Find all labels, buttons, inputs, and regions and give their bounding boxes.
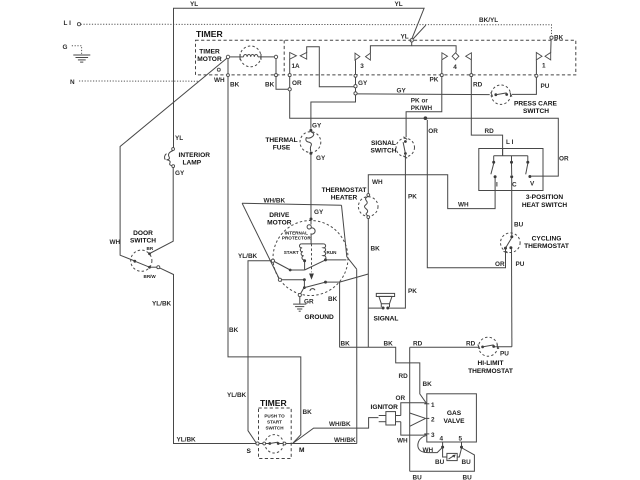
svg-text:3: 3 xyxy=(360,63,364,70)
svg-text:BK: BK xyxy=(303,409,313,416)
svg-text:BU: BU xyxy=(435,459,445,466)
wire RD diagonals to gas valve pin 2 xyxy=(410,413,425,426)
svg-text:4: 4 xyxy=(440,436,444,443)
svg-text:OR: OR xyxy=(292,80,302,87)
svg-text:DRIVE: DRIVE xyxy=(269,212,290,219)
svg-text:OR: OR xyxy=(396,395,406,402)
wire GY long line to press care switch xyxy=(357,93,490,96)
wire WH/BK motor to M terminal xyxy=(356,269,358,443)
timer cam contact 1 xyxy=(536,53,550,70)
svg-text:BK: BK xyxy=(328,296,338,303)
wire 1A right leg over to contact 3 xyxy=(307,47,354,87)
svg-text:V: V xyxy=(530,181,535,188)
svg-text:WH/BK: WH/BK xyxy=(329,421,351,428)
svg-text:1A: 1A xyxy=(292,63,301,70)
push to start switch S3 terminals xyxy=(247,442,306,455)
node BK junction circle xyxy=(550,36,553,39)
wire motor enclosure top edge xyxy=(242,203,341,205)
wire WH ignitor to gas valve pin 3 xyxy=(401,422,427,435)
svg-text:RD: RD xyxy=(466,341,476,348)
svg-text:YL/BK: YL/BK xyxy=(227,392,247,399)
svg-text:RUN: RUN xyxy=(327,250,338,255)
svg-text:YL: YL xyxy=(401,33,409,40)
svg-text:WH: WH xyxy=(110,239,121,246)
svg-text:YL: YL xyxy=(395,1,403,8)
wire motor to ground xyxy=(298,289,314,306)
svg-text:YL/BK: YL/BK xyxy=(238,253,258,260)
ground G xyxy=(63,44,91,62)
wire BU heat switch C to cycling thermostat xyxy=(511,178,513,235)
svg-text:TIMER: TIMER xyxy=(199,49,220,56)
svg-text:BK: BK xyxy=(423,381,433,388)
ground symbol xyxy=(293,304,334,321)
svg-text:BR: BR xyxy=(147,246,154,251)
wire BK drop to timer contact 1 xyxy=(550,39,552,52)
timer push-to-start block xyxy=(259,398,292,459)
svg-text:VALVE: VALVE xyxy=(443,418,465,425)
wire motor enclosure left edge xyxy=(242,203,279,278)
svg-text:WH: WH xyxy=(458,202,469,209)
wire BK timer motor right leg to OR junction xyxy=(276,59,288,90)
wire OR ignitor to gas valve pin 1 xyxy=(401,403,427,416)
wire L1 dotted line to BK/YL xyxy=(81,24,552,36)
svg-text:RD: RD xyxy=(413,341,423,348)
svg-text:PK or: PK or xyxy=(411,98,429,105)
svg-text:TIMER: TIMER xyxy=(260,398,288,408)
svg-text:M: M xyxy=(299,447,305,454)
svg-text:WH: WH xyxy=(397,438,408,445)
svg-text:RD: RD xyxy=(485,128,495,135)
svg-text:SIGNAL: SIGNAL xyxy=(371,140,396,147)
svg-text:BU: BU xyxy=(413,475,423,480)
svg-text:PU: PU xyxy=(500,351,509,358)
wire BK heater down to bottom rail xyxy=(367,219,369,348)
svg-text:PRESS CARE: PRESS CARE xyxy=(514,101,557,108)
hi-limit thermostat S7 xyxy=(468,337,513,375)
door switch S1 xyxy=(130,230,160,279)
svg-text:BK: BK xyxy=(371,246,381,253)
svg-text:IGNITOR: IGNITOR xyxy=(371,404,399,411)
svg-text:RD: RD xyxy=(399,373,409,380)
wire BU bottom loop xyxy=(410,448,475,471)
svg-text:WH: WH xyxy=(372,179,383,186)
thermal fuse F1 xyxy=(265,129,326,162)
node L1 terminal xyxy=(64,20,81,27)
svg-text:RD: RD xyxy=(473,82,483,89)
wire motor enclosure right edge xyxy=(342,205,357,269)
svg-text:START: START xyxy=(284,250,299,255)
svg-text:PUSH TO: PUSH TO xyxy=(264,414,285,419)
motor start switch blade xyxy=(274,258,346,271)
svg-text:GY: GY xyxy=(397,88,407,95)
svg-text:SWITCH: SWITCH xyxy=(370,148,396,155)
svg-text:PK: PK xyxy=(408,194,417,201)
wire speaker left lead to BK line xyxy=(368,307,381,309)
speaker SIGNAL LS1 xyxy=(374,293,399,322)
svg-text:PK: PK xyxy=(408,288,417,295)
svg-text:BU: BU xyxy=(463,475,473,480)
svg-text:THERMOSTAT: THERMOSTAT xyxy=(468,368,513,375)
motor internal protector xyxy=(282,218,315,244)
svg-text:BU: BU xyxy=(462,459,472,466)
svg-text:SWITCH: SWITCH xyxy=(265,426,284,431)
svg-text:BU: BU xyxy=(514,222,524,229)
wire stub junction to L1 line xyxy=(413,25,426,39)
svg-text:PU: PU xyxy=(516,261,525,268)
svg-text:C: C xyxy=(512,182,517,189)
svg-text:3: 3 xyxy=(431,432,435,439)
node M junction xyxy=(293,443,357,445)
svg-text:SWITCH: SWITCH xyxy=(130,238,156,245)
wire WH diagonal from timer motor to door switch xyxy=(120,58,227,261)
wire OR cycling thermostat to OR bus xyxy=(427,120,505,268)
wire RD from contact 4 right leg xyxy=(471,60,502,156)
svg-text:1: 1 xyxy=(431,402,435,409)
svg-text:PK: PK xyxy=(430,77,439,84)
press care switch S2 xyxy=(491,85,558,115)
svg-text:2: 2 xyxy=(431,417,435,424)
svg-text:OR: OR xyxy=(428,128,438,135)
svg-text:L I: L I xyxy=(506,139,514,146)
timer cam contact 1A xyxy=(290,53,307,71)
wire timer feed bus xyxy=(370,42,411,53)
svg-text:BK/YL: BK/YL xyxy=(479,17,498,24)
svg-text:GY: GY xyxy=(358,80,368,87)
timer motor U1 xyxy=(197,46,277,67)
gas valve V1 xyxy=(424,394,476,449)
cycling thermostat S6 xyxy=(501,233,569,253)
svg-text:HI-LIMIT: HI-LIMIT xyxy=(477,360,503,367)
svg-text:SWITCH: SWITCH xyxy=(523,108,549,115)
svg-text:WH: WH xyxy=(214,77,225,84)
svg-text:BK: BK xyxy=(384,341,394,348)
svg-text:I: I xyxy=(496,182,498,189)
wire PK signal switch to speaker xyxy=(389,155,405,308)
svg-text:GY: GY xyxy=(316,155,326,162)
wire PK/WH from contact 4 left leg xyxy=(406,60,442,137)
ignitor E1 xyxy=(371,404,401,425)
wire YL/BK door switch down to S terminal xyxy=(160,268,256,444)
thermostat heater R1 xyxy=(322,187,378,219)
svg-text:L I: L I xyxy=(64,20,72,27)
svg-text:S: S xyxy=(247,448,252,455)
svg-text:BK: BK xyxy=(341,341,351,348)
svg-text:YL/BK: YL/BK xyxy=(177,437,197,444)
svg-text:PK/WH: PK/WH xyxy=(411,105,433,112)
svg-text:BR/W: BR/W xyxy=(144,274,157,279)
wire PU cycling thermostat down to hi-limit xyxy=(511,249,513,347)
wire WH heat switch I to thermostat heater xyxy=(368,175,495,209)
svg-text:3-POSITION: 3-POSITION xyxy=(526,194,564,201)
svg-text:THERMAL: THERMAL xyxy=(265,137,297,144)
svg-text:THERMOSTAT: THERMOSTAT xyxy=(322,187,367,194)
wire centrifugal to heater BK line diagonal xyxy=(340,274,369,282)
svg-text:WH/BK: WH/BK xyxy=(334,437,356,444)
svg-text:THERMOSTAT: THERMOSTAT xyxy=(524,243,569,250)
svg-text:OR: OR xyxy=(495,261,505,268)
svg-text:HEATER: HEATER xyxy=(331,195,358,202)
svg-text:GROUND: GROUND xyxy=(305,314,335,321)
svg-text:OR: OR xyxy=(559,156,569,163)
svg-text:LAMP: LAMP xyxy=(183,160,202,167)
svg-text:4: 4 xyxy=(453,64,457,71)
wire BK from timer motor left terminal down xyxy=(228,59,301,444)
svg-text:GY: GY xyxy=(312,123,322,130)
svg-text:BK: BK xyxy=(229,327,239,334)
svg-text:BK: BK xyxy=(265,82,275,89)
svg-text:GY: GY xyxy=(314,209,324,216)
regulator coil between pins 4 and 5 xyxy=(435,448,471,466)
svg-text:SIGNAL: SIGNAL xyxy=(374,316,399,323)
wire N dotted to WH diagonal xyxy=(79,80,198,82)
svg-text:INTERIOR: INTERIOR xyxy=(179,152,211,159)
svg-text:GAS: GAS xyxy=(447,410,462,417)
wire GY contact3 left leg xyxy=(311,60,356,129)
motor windings START and RUN xyxy=(284,244,337,280)
wire OR from 1A left leg xyxy=(290,59,559,176)
wire GY lamp to door switch xyxy=(150,168,174,254)
wire RD down to gas valve pin 2 and BU loop xyxy=(409,347,411,471)
svg-text:DOOR: DOOR xyxy=(133,230,153,237)
wire BK bottom rail left segment xyxy=(340,347,427,403)
svg-text:N: N xyxy=(70,79,75,86)
svg-text:G: G xyxy=(63,44,68,51)
wire YL top line xyxy=(174,8,425,148)
svg-text:YL/BK: YL/BK xyxy=(152,301,172,308)
svg-text:BK: BK xyxy=(230,82,240,89)
svg-text:GY: GY xyxy=(175,170,185,177)
svg-text:HEAT SWITCH: HEAT SWITCH xyxy=(522,202,568,209)
svg-text:MOTOR: MOTOR xyxy=(267,220,292,227)
svg-text:MOTOR: MOTOR xyxy=(197,56,222,63)
svg-text:PU: PU xyxy=(541,83,550,90)
svg-text:1: 1 xyxy=(542,63,546,70)
wire WH gas valve pin 3 to pin 4 loop xyxy=(418,435,443,452)
wire WH/BK M to ignitor line xyxy=(293,418,379,444)
signal switch S5 xyxy=(370,137,414,158)
timer cam contact 4 xyxy=(442,53,472,71)
svg-text:FUSE: FUSE xyxy=(273,145,291,152)
wire RD bottom rail to hi-limit xyxy=(410,346,480,348)
timer box xyxy=(196,29,576,75)
drive motor B1 xyxy=(264,198,349,296)
svg-text:TIMER: TIMER xyxy=(196,29,224,39)
wire BK centrifugal to bottom rail xyxy=(339,282,341,347)
wire YL/BK into motor xyxy=(248,261,272,443)
svg-text:WH: WH xyxy=(423,447,434,454)
interior lamp DS1 xyxy=(165,135,211,177)
svg-text:YL: YL xyxy=(190,1,198,8)
svg-text:CYCLING: CYCLING xyxy=(532,236,562,243)
3-position heat switch S4 xyxy=(479,149,568,210)
svg-text:5: 5 xyxy=(459,436,463,443)
svg-text:YL: YL xyxy=(175,135,183,142)
svg-text:START: START xyxy=(267,420,282,425)
wire PU contact 1 left leg to press care xyxy=(512,60,536,94)
svg-text:PROTECTOR: PROTECTOR xyxy=(282,236,311,241)
node YL junction circle xyxy=(410,39,413,42)
wire GY fuse to drive motor xyxy=(310,155,312,219)
motor centrifugal switch row xyxy=(278,278,339,291)
timer cam contact 3 xyxy=(355,53,370,70)
